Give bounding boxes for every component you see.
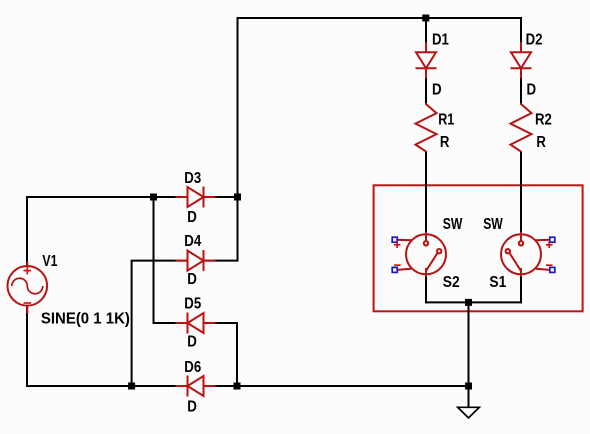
wire V1 top to node A xyxy=(27,197,154,266)
S2 control pin square - xyxy=(392,267,397,272)
junction bottom rail at D5 branch xyxy=(234,383,241,390)
resistor R2 xyxy=(511,103,532,152)
diode D2 xyxy=(511,42,532,78)
S2 control pin square + xyxy=(392,237,397,242)
svg-text:S1: S1 xyxy=(489,274,506,291)
diode D3 xyxy=(176,187,216,208)
svg-text:D: D xyxy=(187,334,197,351)
S1 control pin square - xyxy=(550,267,555,272)
voltage source V1 xyxy=(8,262,48,314)
svg-text:D5: D5 xyxy=(184,295,201,312)
svg-text:S2: S2 xyxy=(443,274,460,291)
junction bottom rail at ground xyxy=(465,383,472,390)
svg-text:D: D xyxy=(527,81,537,98)
junction bottom rail at D4 branch xyxy=(128,383,135,390)
svg-text:SW: SW xyxy=(483,216,503,233)
svg-text:R1: R1 xyxy=(438,111,454,128)
wire R2 to S1 xyxy=(520,152,522,234)
svg-text:R2: R2 xyxy=(535,111,552,128)
svg-text:R: R xyxy=(536,134,546,151)
S1 control pin square + xyxy=(550,237,555,242)
junction node B xyxy=(234,194,241,201)
diode D5 xyxy=(176,313,216,334)
svg-text:R: R xyxy=(440,134,450,151)
S1 minus mark xyxy=(546,264,553,266)
wire node B down to D4 right xyxy=(204,197,238,261)
svg-text:V1: V1 xyxy=(42,253,57,270)
diode D6 xyxy=(176,376,216,397)
svg-text:D4: D4 xyxy=(184,233,201,250)
red box around switches xyxy=(374,185,583,311)
junction top rail at D1 xyxy=(422,15,429,22)
wire D2 to R2 xyxy=(520,68,522,103)
svg-text:D3: D3 xyxy=(184,170,201,187)
wire top-left vertical (node B riser) xyxy=(237,17,239,198)
wire node A down to D5 xyxy=(154,197,188,323)
S1 plus mark xyxy=(546,242,553,249)
svg-text:D6: D6 xyxy=(184,359,201,376)
wire D2 column upper xyxy=(520,17,522,52)
svg-text:D2: D2 xyxy=(526,32,543,49)
svg-text:D: D xyxy=(187,398,197,415)
svg-text:SW: SW xyxy=(443,216,463,233)
wire top horizontal xyxy=(237,17,523,19)
svg-text:D: D xyxy=(187,209,197,226)
diode D4 xyxy=(176,250,216,271)
wire bottom rail right of D6 xyxy=(204,385,469,387)
wire D1 column upper xyxy=(425,18,427,52)
diode D1 xyxy=(416,42,437,78)
S2 minus mark xyxy=(394,264,401,266)
svg-text:SINE(0 1 1K): SINE(0 1 1K) xyxy=(41,310,130,327)
junction switch rail xyxy=(465,299,472,306)
wire D4 left to bottom rail xyxy=(132,261,188,386)
wire switch bottom rail xyxy=(425,301,522,303)
wire D3 right stub to node B xyxy=(204,196,238,198)
svg-text:D1: D1 xyxy=(432,32,449,49)
S2 plus mark xyxy=(394,242,401,249)
wire V1 bottom to bottom rail xyxy=(27,306,177,387)
switch S2 xyxy=(397,232,446,277)
wire R1 to S2 xyxy=(425,152,427,234)
wire S2 bottom xyxy=(425,274,427,303)
ground symbol xyxy=(458,407,480,418)
wire D1 to R1 xyxy=(425,68,427,103)
wire D5 right down to bottom rail xyxy=(204,323,238,386)
svg-text:D: D xyxy=(187,271,197,288)
wire ground riser xyxy=(468,302,470,407)
junction node A xyxy=(150,194,157,201)
wire S1 bottom xyxy=(520,274,522,303)
wire D3 left stub xyxy=(154,196,188,198)
svg-text:D: D xyxy=(432,81,442,98)
switch S1 xyxy=(501,232,550,277)
resistor R1 xyxy=(416,103,437,152)
